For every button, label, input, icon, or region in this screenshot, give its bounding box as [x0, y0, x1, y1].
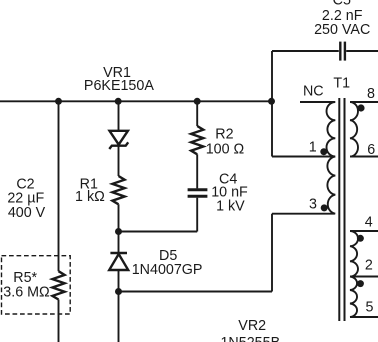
svg-text:4: 4	[365, 215, 373, 231]
transformer T1 core	[339, 98, 344, 321]
svg-text:8: 8	[367, 86, 375, 102]
diode D5	[109, 253, 128, 270]
wire pin 3 horizontal	[272, 213, 335, 215]
polarity dot pin 2	[357, 280, 364, 287]
wire D5 anode down	[118, 270, 120, 342]
svg-text:6: 6	[367, 142, 375, 158]
wire C2/R5 column upper	[58, 101, 60, 271]
svg-text:400 V: 400 V	[8, 205, 46, 221]
transformer T1 secondary winding 4-2	[350, 231, 358, 277]
wire R2 top lead	[196, 101, 198, 126]
wire C4 bottom horizontal	[119, 231, 198, 233]
svg-text:2: 2	[365, 258, 373, 274]
svg-text:1 kΩ: 1 kΩ	[75, 189, 105, 205]
wire C5 right	[346, 50, 378, 52]
wire VR1 to R1	[118, 146, 120, 176]
polarity dot pin 4	[357, 235, 364, 242]
node junction dot R1-C4	[115, 228, 122, 235]
wire pin 2	[350, 276, 378, 278]
wire R2 to C4	[196, 154, 198, 188]
polarity dot pin 8	[357, 104, 364, 111]
wire VR1 top lead	[118, 101, 120, 131]
svg-text:VR2: VR2	[238, 318, 266, 334]
node junction dot D5 output	[115, 288, 122, 295]
wire pin 1 horizontal	[272, 156, 335, 158]
svg-text:NC: NC	[303, 84, 324, 100]
svg-text:1N5255B: 1N5255B	[220, 335, 280, 342]
wire right vertical lower (pin3 down)	[271, 214, 273, 292]
wire NC stub	[300, 101, 335, 103]
svg-text:3.6 MΩ: 3.6 MΩ	[3, 285, 50, 301]
wire C2/R5 column lower	[58, 300, 60, 342]
node junction dot bus-R2	[194, 98, 201, 105]
svg-text:250 VAC: 250 VAC	[314, 22, 370, 38]
polarity dot pin 1	[320, 148, 327, 155]
wire C4 bottom lead	[196, 198, 198, 232]
wire pin 8	[350, 101, 378, 103]
wire R1 to C4 bus	[118, 204, 120, 231]
svg-text:R2: R2	[215, 127, 233, 143]
dashed box around R5	[2, 256, 71, 314]
svg-text:1: 1	[309, 139, 317, 155]
svg-text:1 kV: 1 kV	[216, 198, 245, 214]
svg-text:P6KE150A: P6KE150A	[84, 78, 154, 94]
transformer T1 primary winding (NC-1-3)	[326, 102, 335, 214]
capacitor C4	[188, 190, 208, 197]
transformer T1 secondary winding 8-6	[350, 102, 358, 157]
node junction dot bus-right	[268, 98, 275, 105]
wire C4 bus to D5	[118, 232, 120, 253]
node junction dot bus-VR1	[115, 98, 122, 105]
wire right vertical upper (C5 to pin1)	[271, 51, 273, 157]
resistor R1	[112, 176, 124, 204]
svg-text:22 µF: 22 µF	[7, 191, 44, 207]
transformer T1 secondary winding 2-5	[350, 277, 357, 318]
wire pin 4	[350, 230, 378, 232]
resistor R5	[52, 271, 64, 299]
resistor R2	[191, 126, 203, 154]
wire pin 5	[350, 316, 378, 318]
wire main horizontal bus	[0, 100, 272, 102]
polarity dot pin 3	[321, 204, 328, 211]
wire pin 6	[350, 156, 378, 158]
svg-text:100 Ω: 100 Ω	[206, 142, 245, 158]
capacitor C5	[340, 42, 345, 61]
node junction dot bus-C2	[55, 98, 62, 105]
svg-text:3: 3	[309, 197, 317, 213]
svg-text:1N4007GP: 1N4007GP	[132, 262, 203, 278]
zener diode VR1	[109, 131, 128, 149]
svg-text:5: 5	[366, 300, 374, 316]
wire C5 left	[272, 50, 339, 52]
wire D5 output horizontal	[119, 291, 273, 293]
svg-text:T1: T1	[333, 76, 350, 92]
